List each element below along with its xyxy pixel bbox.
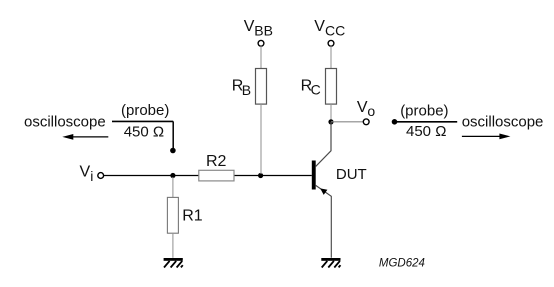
probe divider line left (112, 120, 173, 122)
resistor RB (256, 69, 267, 105)
node VCC terminal (328, 40, 334, 46)
svg-text:o: o (367, 103, 375, 119)
wire VCC to RC (330, 46, 332, 68)
svg-text:BB: BB (254, 23, 273, 39)
wire node C to Vo (331, 121, 364, 123)
wire R1 bottom (172, 233, 174, 258)
ground (right) (321, 258, 340, 268)
node VBB terminal (258, 40, 264, 46)
node Vi terminal (98, 173, 104, 179)
svg-text:V: V (314, 18, 325, 35)
svg-text:B: B (242, 82, 251, 98)
svg-text:V: V (357, 99, 368, 116)
ground (left) (164, 258, 183, 268)
svg-text:450 Ω: 450 Ω (124, 124, 164, 141)
svg-text:(probe): (probe) (121, 102, 169, 119)
wire RC to node C (330, 104, 332, 122)
junction node C (328, 119, 333, 124)
resistor R2 (199, 170, 234, 181)
svg-text:R2: R2 (206, 153, 227, 170)
junction node B (258, 173, 263, 178)
junction node A (170, 173, 175, 178)
wire RB to node B (260, 104, 262, 174)
svg-text:V: V (80, 164, 91, 181)
svg-text:(probe): (probe) (400, 102, 448, 119)
probe contact dot right (392, 119, 398, 125)
node Vo terminal (363, 119, 369, 125)
svg-text:DUT: DUT (336, 166, 367, 183)
wire probe drop left (172, 121, 174, 148)
svg-text:i: i (90, 168, 93, 184)
resistor RC (326, 69, 337, 105)
wire R1 top (172, 177, 174, 197)
arrow to right oscilloscope (462, 134, 511, 140)
probe divider line right (395, 121, 458, 123)
wire base (Vi to DUT) (104, 175, 312, 177)
transistor DUT (312, 122, 332, 258)
svg-text:R1: R1 (182, 208, 203, 225)
wire VBB to RB (260, 46, 262, 68)
arrow to left oscilloscope (62, 134, 108, 140)
svg-text:450 Ω: 450 Ω (406, 123, 446, 140)
svg-text:V: V (244, 18, 255, 35)
probe contact dot left (170, 148, 176, 154)
svg-text:oscilloscope: oscilloscope (24, 114, 106, 131)
resistor R1 (167, 197, 178, 233)
svg-text:oscilloscope: oscilloscope (462, 114, 544, 131)
svg-text:CC: CC (325, 23, 345, 39)
svg-text:MGD624: MGD624 (379, 257, 425, 269)
svg-text:C: C (311, 82, 321, 98)
